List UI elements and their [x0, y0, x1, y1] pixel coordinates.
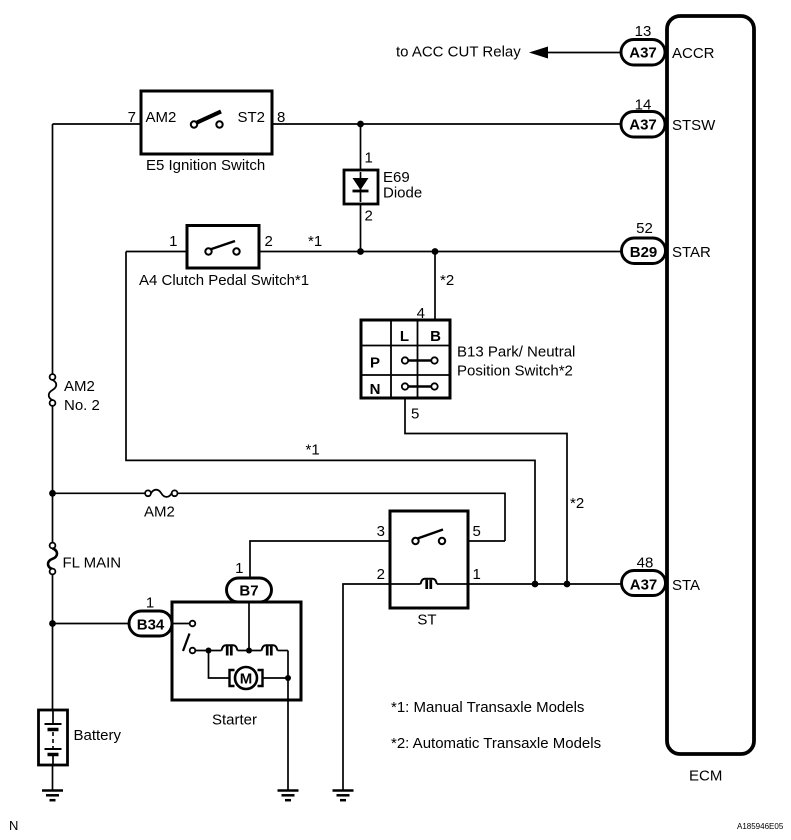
svg-text:L: L: [400, 328, 409, 345]
motor M: [230, 670, 235, 686]
wire starter output down: [287, 651, 289, 791]
svg-text:to ACC CUT Relay: to ACC CUT Relay: [396, 44, 521, 61]
battery plate long bottom: [45, 748, 62, 750]
svg-text:A37: A37: [629, 117, 657, 134]
connector A37 STSW: [621, 112, 665, 138]
junction *2 on STA wire: [564, 581, 571, 588]
svg-text:B: B: [430, 328, 441, 345]
wire clutch switch pin 1: [126, 251, 187, 253]
connector B7: [227, 578, 272, 602]
B13 grid lines: [361, 320, 450, 398]
svg-text:AM2: AM2: [144, 504, 175, 521]
battery box: [39, 710, 68, 765]
junction B7 wire: [246, 648, 252, 654]
ignition switch contact right: [216, 121, 222, 127]
connector A37 STA: [622, 571, 666, 596]
wire starter solenoid row: [195, 650, 221, 652]
ground ST: [333, 791, 354, 801]
wire B34 to starter contact: [172, 623, 190, 625]
svg-text:A4 Clutch Pedal Switch*1: A4 Clutch Pedal Switch*1: [139, 272, 309, 289]
svg-text:AM2: AM2: [64, 378, 95, 395]
wire ST pin 2 to ground: [343, 584, 390, 790]
ignition switch E5 box: [141, 91, 272, 154]
svg-text:2: 2: [377, 566, 385, 583]
svg-text:1: 1: [235, 560, 243, 577]
battery wire top inside: [52, 710, 54, 724]
svg-text:8: 8: [277, 109, 285, 126]
starter fixed contact: [190, 621, 196, 627]
svg-text:A37: A37: [629, 45, 657, 62]
svg-text:ACCR: ACCR: [672, 45, 715, 62]
svg-text:STSW: STSW: [672, 117, 716, 134]
battery plate short bottom: [48, 753, 59, 757]
battery wire bottom inside: [52, 755, 54, 766]
diode symbol: [360, 172, 362, 202]
svg-text:*2: Automatic Transaxle Models: *2: Automatic Transaxle Models: [391, 735, 601, 752]
svg-text:P: P: [370, 355, 380, 372]
svg-text:7: 7: [128, 109, 136, 126]
svg-text:A37: A37: [630, 576, 658, 593]
wire to ACC CUT Relay: [547, 52, 621, 54]
park/neutral position switch B13 box: [361, 320, 450, 398]
svg-text:Diode: Diode: [383, 185, 422, 202]
svg-text:B7: B7: [239, 583, 258, 600]
battery plate long top: [45, 723, 62, 725]
svg-text:AM2: AM2: [146, 109, 177, 126]
clutch switch contact right: [233, 248, 239, 254]
battery plate short top: [48, 728, 59, 732]
clutch pedal switch A4 box: [187, 226, 259, 269]
svg-text:1: 1: [473, 566, 481, 583]
wire AM2 fuse left: [53, 492, 146, 494]
ST relay contact right: [439, 538, 445, 544]
junction STAR to B13: [432, 248, 439, 255]
svg-text:1: 1: [169, 233, 177, 250]
junction diode top: [357, 121, 364, 128]
svg-text:No. 2: No. 2: [64, 397, 100, 414]
svg-text:STAR: STAR: [672, 244, 711, 261]
ST relay lever: [418, 530, 444, 539]
svg-text:ECM: ECM: [689, 768, 722, 785]
diode E69 box: [344, 170, 378, 204]
left rail wire lower: [52, 574, 54, 710]
svg-text:M: M: [240, 671, 253, 688]
ignition switch lever: [197, 112, 221, 123]
connector B29 STAR: [622, 238, 666, 264]
wire ST pin 3 to B7: [250, 541, 390, 578]
wire B7 down: [248, 602, 250, 651]
svg-text:1: 1: [365, 150, 373, 167]
svg-text:5: 5: [473, 523, 481, 540]
starter coil 1: [222, 645, 238, 650]
ST relay coil: [390, 583, 421, 585]
wire diode bottom: [360, 204, 362, 252]
ignition switch contact left: [191, 121, 197, 127]
svg-text:B34: B34: [137, 617, 165, 634]
svg-text:ST: ST: [417, 612, 436, 629]
connector B34: [129, 611, 172, 636]
fusible link FL MAIN: [50, 543, 56, 549]
wire battery to ground: [52, 765, 54, 790]
clutch switch contact left: [205, 248, 211, 254]
svg-text:1: 1: [146, 595, 154, 612]
svg-text:STA: STA: [672, 577, 700, 594]
wire B34 branch: [53, 623, 130, 625]
B13 N row contact: [408, 385, 432, 388]
starter moving contact: [190, 648, 196, 654]
junction diode bottom: [357, 248, 364, 255]
svg-text:E69: E69: [383, 169, 410, 186]
svg-text:5: 5: [411, 406, 419, 423]
svg-text:3: 3: [377, 523, 385, 540]
svg-text:*1: Manual Transaxle Models: *1: Manual Transaxle Models: [391, 699, 584, 716]
starter coil 2: [262, 645, 278, 650]
svg-text:N: N: [9, 818, 18, 833]
fuse AM2 No.2: [50, 374, 56, 380]
left rail wire middle: [52, 406, 54, 543]
svg-text:Starter: Starter: [212, 712, 257, 729]
ST relay box: [390, 511, 468, 608]
wire AM2 fuse to ST pin 5: [178, 493, 506, 541]
wire STSW (ignition switch to ECM): [272, 123, 621, 125]
junction B34 branch: [49, 620, 56, 627]
junction solenoid left: [206, 648, 212, 654]
svg-text:A185946E05: A185946E05: [737, 822, 784, 831]
svg-text:Battery: Battery: [74, 727, 122, 744]
battery dashed link: [52, 732, 54, 748]
ECM box: [667, 16, 754, 754]
wire STAR: [259, 251, 621, 253]
svg-text:FL MAIN: FL MAIN: [63, 555, 122, 572]
wire B13 pin 5 to STA: [405, 398, 567, 584]
svg-text:2: 2: [265, 233, 273, 250]
wire *1 manual bypass: [126, 252, 535, 585]
clutch switch lever: [210, 241, 235, 250]
junction AM2 branch: [49, 490, 56, 497]
junction starter output: [285, 675, 291, 681]
connector A37 ACCR: [621, 40, 665, 66]
svg-text:13: 13: [635, 23, 652, 40]
starter lever: [183, 634, 190, 652]
svg-text:B13 Park/ Neutral: B13 Park/ Neutral: [457, 344, 575, 361]
svg-text:*1: *1: [306, 442, 320, 459]
svg-text:*2: *2: [570, 495, 584, 512]
svg-text:*2: *2: [440, 272, 454, 289]
starter box: [172, 602, 301, 700]
ground battery: [42, 791, 63, 801]
wire ST pin 5: [468, 540, 505, 542]
ST relay contact left: [412, 538, 418, 544]
wire B13 pin 4: [434, 252, 436, 321]
wire motor to junction: [263, 677, 289, 679]
svg-text:E5 Ignition Switch: E5 Ignition Switch: [146, 157, 265, 174]
wire diode top: [360, 124, 362, 170]
fuse AM2: [145, 490, 151, 496]
svg-text:2: 2: [365, 208, 373, 225]
wire STA (ST pin 1 to ECM): [468, 583, 622, 585]
svg-text:*1: *1: [308, 233, 322, 250]
svg-text:48: 48: [637, 555, 654, 572]
wire solenoid to motor branch: [209, 651, 230, 679]
svg-text:N: N: [370, 381, 381, 398]
arrowhead: [529, 47, 548, 59]
B13 P row contact: [408, 359, 432, 362]
junction *1 on STA wire: [532, 581, 539, 588]
svg-text:ST2: ST2: [238, 109, 266, 126]
svg-text:B29: B29: [630, 244, 658, 261]
ground starter: [278, 791, 299, 801]
svg-text:Position Switch*2: Position Switch*2: [457, 363, 573, 380]
left rail wire upper: [52, 124, 54, 374]
svg-text:52: 52: [636, 220, 653, 237]
wire ignition switch pin 7 to left rail: [53, 123, 142, 125]
